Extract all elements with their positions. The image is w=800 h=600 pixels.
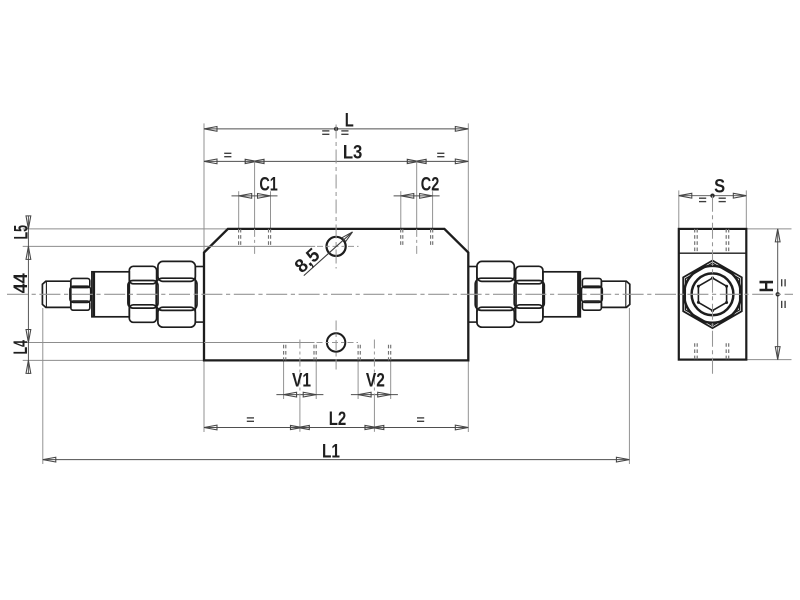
dimension line C2 <box>394 195 440 197</box>
symmetry mark left of S dot <box>699 197 706 199</box>
arrow C2 right <box>420 194 433 199</box>
hidden port lines side view top <box>694 229 696 252</box>
counterbore depth line bottom <box>204 342 315 344</box>
adjustment screw stub <box>601 281 629 307</box>
extension line V2 centre <box>373 399 375 432</box>
centreline port V2 <box>373 340 375 400</box>
adjustment screw stub <box>42 281 70 307</box>
dimension line L1 <box>43 459 630 461</box>
arrow C1 left <box>239 194 252 199</box>
extension line bottom port depth <box>23 342 315 344</box>
extension line stub left (L1) <box>42 308 44 464</box>
extension line body right (L2) <box>467 360 469 432</box>
symmetry mark below H dot <box>781 301 783 308</box>
extension line block bottom (H) <box>746 359 791 361</box>
symmetry mark above H dot <box>781 279 783 286</box>
svg-text:V1: V1 <box>292 370 311 391</box>
dimension line S <box>679 195 747 197</box>
symmetry mark left of L dot <box>322 130 329 132</box>
hidden thread lines port V1 <box>283 345 285 361</box>
extension line block top (H) <box>746 228 791 230</box>
svg-text:L2: L2 <box>329 409 347 430</box>
extension line body right (top dims) <box>467 123 469 252</box>
extension line stub right (L1) <box>628 308 630 464</box>
arrow L3 left <box>204 159 217 164</box>
midpoint dot L <box>334 127 338 131</box>
arrow H bottom <box>775 347 780 360</box>
arrow H top <box>775 229 780 242</box>
extension line C1 left <box>238 191 240 229</box>
centreline port C2 <box>416 229 418 257</box>
equal mark left L3 <box>224 152 231 154</box>
hex plug chamfer circle <box>684 266 741 323</box>
chamfer edge line (side view) <box>679 252 747 254</box>
centreline port V1 <box>299 340 301 400</box>
extension line body bottom edge (left) <box>23 359 204 361</box>
cartridge boss left <box>195 267 204 323</box>
svg-text:L3: L3 <box>343 143 363 164</box>
arrow V2 right <box>378 392 391 397</box>
extension line C1 right <box>270 191 272 229</box>
extension line C2 centre <box>416 161 418 229</box>
valve body (front view) <box>204 229 468 361</box>
hex nut medium <box>129 266 156 284</box>
arrow S left <box>679 193 692 198</box>
dimension line V1 <box>276 394 323 396</box>
hex socket corner fillets <box>711 277 714 280</box>
horizontal centreline bottom circle <box>317 342 359 344</box>
tick V1 centre on L2 <box>291 425 302 429</box>
arrow 44 top <box>26 246 31 259</box>
svg-text:L5: L5 <box>12 225 33 240</box>
jam nut small hex <box>582 278 601 287</box>
extension line C1 centre <box>254 161 256 229</box>
svg-text:C1: C1 <box>259 175 278 196</box>
arrow L3 right <box>455 159 468 164</box>
tick C1 centre on L3 <box>245 159 256 163</box>
leader line 8,5 <box>304 232 353 276</box>
side view vertical centreline <box>712 196 714 375</box>
extension line body top edge (left) <box>23 228 228 230</box>
midpoint dot H <box>776 292 780 296</box>
svg-text:H: H <box>757 280 778 293</box>
arrow L2 right <box>455 425 468 430</box>
dimension line L <box>204 128 468 130</box>
svg-text:L4: L4 <box>11 340 32 355</box>
arrow V1 left <box>284 392 297 397</box>
extension line block right (S) <box>745 190 747 229</box>
hidden thread lines port V2 <box>357 345 359 361</box>
arrow C2 left <box>401 194 414 199</box>
cartridge hex large <box>477 261 514 281</box>
cartridge hex large <box>158 261 195 281</box>
main horizontal centreline <box>7 293 793 295</box>
dimension line H <box>777 229 779 360</box>
hex nut medium <box>516 266 543 284</box>
leader arrow <box>342 232 352 242</box>
vertical centreline top (through gauge hole) <box>335 125 337 269</box>
cartridge boss right <box>468 267 477 323</box>
tick C2 centre on L3 <box>407 159 418 163</box>
svg-text:C2: C2 <box>421 175 440 196</box>
svg-text:L1: L1 <box>322 441 340 462</box>
counterbore depth line top <box>204 245 315 247</box>
arrow S right <box>733 193 746 198</box>
hidden thread lines port C1 <box>238 229 240 246</box>
centreline port C1 <box>254 229 256 257</box>
arrow L2 left <box>204 425 217 430</box>
arrow L right <box>455 127 468 132</box>
extension line V1 centre <box>299 399 301 432</box>
extension line block left (S) <box>678 190 680 229</box>
dimension line V2 <box>351 394 398 396</box>
extension line V1 right <box>315 360 317 399</box>
adjuster sleeve cylinder <box>543 272 580 317</box>
right cartridge valve V2 <box>475 261 630 327</box>
extension line C2 right <box>432 191 434 229</box>
svg-text:44: 44 <box>11 273 32 293</box>
extension line V1 left <box>283 360 285 399</box>
arrow L1 right <box>616 457 629 462</box>
extension line V2 left <box>357 360 359 399</box>
hidden thread lines port C2 <box>400 229 402 246</box>
jam nut small hex <box>71 278 90 287</box>
extension line body left (L2) <box>203 360 205 432</box>
tick V2 centre on L2 <box>365 425 376 429</box>
horizontal centreline top circle <box>317 245 359 247</box>
vertical centreline bottom circle <box>335 321 337 372</box>
svg-text:L: L <box>345 111 354 132</box>
arrow L left <box>204 127 217 132</box>
svg-text:S: S <box>714 176 725 197</box>
dimension line L3 <box>204 160 468 162</box>
valve body (side view) <box>679 229 747 360</box>
gauge port hole bottom <box>327 333 345 351</box>
left cartridge valve V1 <box>42 261 197 327</box>
equal mark right L2 <box>417 417 424 419</box>
extension line V2 right <box>390 360 392 399</box>
gauge port hole top <box>327 237 346 256</box>
svg-text:V2: V2 <box>366 370 385 391</box>
dimension line C1 <box>232 195 278 197</box>
hex plug inner hexagon outline <box>685 263 739 326</box>
dimension line L5-44-L4 <box>27 216 29 375</box>
adjuster sleeve cylinder <box>92 272 129 317</box>
arrow L5 top <box>26 216 31 229</box>
extension line body left (top dims) <box>203 123 205 252</box>
hidden port lines side view bottom <box>694 343 696 359</box>
extension line C2 left <box>400 191 402 229</box>
arrow L4 bottom <box>26 360 31 373</box>
midpoint dot S <box>710 194 714 198</box>
extension line top port depth <box>23 245 316 247</box>
arrow 44 bottom <box>26 330 31 343</box>
equal mark left L2 <box>247 417 254 419</box>
arrow V2 left <box>358 392 371 397</box>
hex socket <box>698 278 726 311</box>
dimension line L2 <box>204 427 468 429</box>
symmetry mark right of L dot <box>341 130 348 132</box>
arrow V1 right <box>303 392 316 397</box>
arrow C1 right <box>258 194 271 199</box>
equal mark right L3 <box>437 152 444 154</box>
arrow L1 left <box>43 457 56 462</box>
hex plug face circle <box>692 273 734 315</box>
hex plug outer hexagon (side view) <box>683 261 742 329</box>
symmetry mark right of S dot <box>719 197 726 199</box>
